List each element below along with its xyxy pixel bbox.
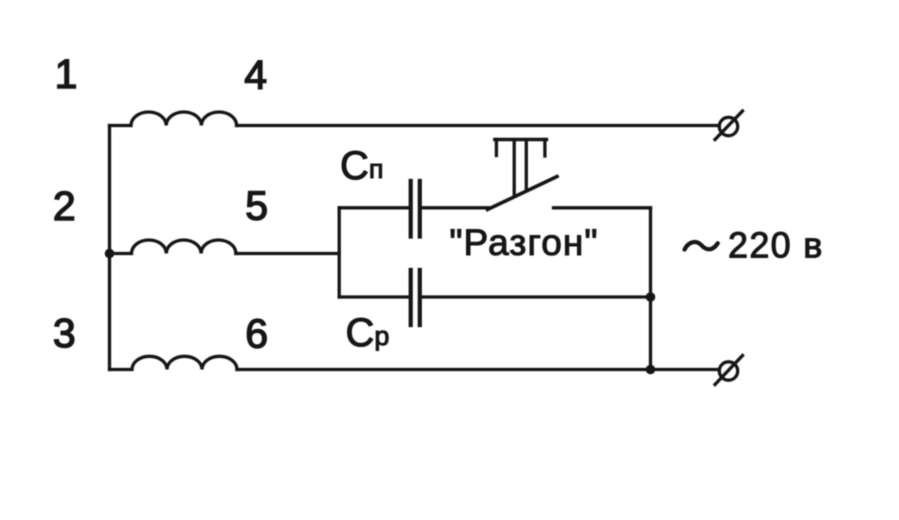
junction: winding 2 tap on left bus: [105, 249, 115, 259]
svg-text:Сп: Сп: [340, 144, 384, 188]
terminal: bottom supply terminal (circle with slash): [715, 356, 743, 385]
svg-text:220 в: 220 в: [728, 225, 824, 266]
wire: switch to right bus: [554, 206, 651, 209]
push-button cap right tick: [543, 140, 546, 157]
svg-text:3: 3: [53, 310, 76, 356]
wire: winding 5 end to capacitor bank: [236, 252, 339, 255]
wire: left common bus (phase star point): [108, 126, 111, 370]
svg-text:2: 2: [53, 183, 76, 229]
wire: right bus of capacitor group down to bottom line: [649, 208, 652, 370]
push-button stem (double line): [513, 140, 516, 195]
svg-text:6: 6: [245, 311, 268, 357]
junction: Cр branch on right bus: [646, 292, 656, 302]
capacitor Cп (starting capacitor): [411, 181, 420, 237]
svg-text:4: 4: [244, 52, 267, 98]
svg-text:5: 5: [245, 182, 268, 228]
svg-text:"Разгон": "Разгон": [449, 222, 598, 263]
push-button cap left tick: [495, 140, 498, 156]
winding L2 (stator winding 2-5): [110, 240, 236, 253]
svg-text:Ср: Ср: [346, 311, 390, 355]
switch SB "Разгон" (push-button, normally open): [488, 140, 558, 210]
wire: capacitor Cр to right bus: [422, 295, 651, 298]
wire: left side of capacitor parallel group: [338, 208, 341, 297]
switch lever: [488, 177, 558, 210]
wire: winding 4 end to top supply terminal: [237, 124, 718, 127]
capacitor Cр (run capacitor): [411, 270, 420, 325]
svg-text:1: 1: [55, 51, 78, 97]
tilde (AC symbol): [685, 242, 718, 249]
winding L1 (stator winding 1-4): [110, 112, 237, 126]
terminal: top supply terminal (circle with slash): [715, 111, 743, 140]
push-button cap bar: [495, 138, 547, 141]
label ~220V supply: [685, 225, 824, 266]
junction: right bus on bottom supply line: [646, 365, 656, 375]
wire: capacitor Cп to switch contact: [422, 206, 490, 209]
wire: top branch to capacitor Cп: [339, 206, 409, 209]
wire: winding 6 end to bottom supply terminal: [237, 368, 718, 371]
wire: bottom branch to capacitor Cр: [339, 295, 409, 298]
winding L3 (stator winding 3-6): [110, 356, 238, 369]
